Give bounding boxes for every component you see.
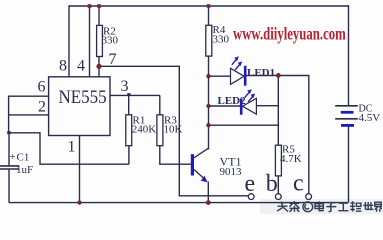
svg-text:+: + <box>10 151 16 163</box>
svg-text:LED1: LED1 <box>247 67 275 79</box>
svg-text:1uF: 1uF <box>16 164 33 176</box>
svg-text:4.7K: 4.7K <box>280 153 302 165</box>
svg-text:6: 6 <box>38 79 46 96</box>
svg-text:4.5V: 4.5V <box>359 112 381 124</box>
svg-text:8: 8 <box>59 58 67 75</box>
svg-text:1: 1 <box>68 139 76 156</box>
svg-text:c: c <box>293 171 304 197</box>
svg-text:330: 330 <box>102 35 119 47</box>
svg-text:10K: 10K <box>164 124 183 136</box>
svg-text:C1: C1 <box>17 152 30 164</box>
svg-text:4: 4 <box>77 58 85 75</box>
svg-text:2: 2 <box>38 99 46 116</box>
svg-text:www.diiyleyuan.com: www.diiyleyuan.com <box>233 24 346 44</box>
svg-text:LED2: LED2 <box>218 95 247 107</box>
svg-text:e: e <box>245 171 256 197</box>
svg-text:9013: 9013 <box>220 166 243 178</box>
svg-text:330: 330 <box>213 34 230 46</box>
svg-text:b: b <box>266 171 278 197</box>
svg-text:3: 3 <box>121 78 129 95</box>
svg-text:NE555: NE555 <box>59 86 107 107</box>
svg-text:7: 7 <box>109 51 117 68</box>
svg-text:240K: 240K <box>132 124 157 136</box>
